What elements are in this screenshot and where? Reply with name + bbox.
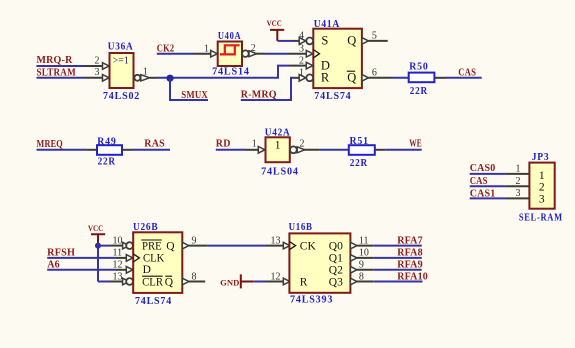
svg-text:3: 3 xyxy=(95,67,100,78)
resistor R50 xyxy=(409,73,435,83)
svg-text:74LS74: 74LS74 xyxy=(314,91,351,102)
wire pin6 to R50 xyxy=(392,77,409,79)
wire CK2 to U40A pin 1 xyxy=(157,53,194,55)
flip-flop U26B (74LS74) xyxy=(133,232,182,293)
wire R50 to CAS xyxy=(434,77,446,79)
pin 6 of U41A (Qbar) xyxy=(362,75,369,82)
svg-text:11: 11 xyxy=(113,248,123,259)
svg-text:Q0: Q0 xyxy=(329,240,343,252)
svg-text:CAS: CAS xyxy=(458,67,476,78)
svg-text:RFA9: RFA9 xyxy=(397,260,423,271)
svg-text:13: 13 xyxy=(113,271,123,282)
svg-text:1: 1 xyxy=(252,138,257,149)
pin 13 of U16B (CK) xyxy=(266,245,283,247)
svg-text:RFA10: RFA10 xyxy=(397,271,428,282)
svg-text:74LS14: 74LS14 xyxy=(212,67,250,78)
svg-text:VCC: VCC xyxy=(267,18,282,28)
wire junction down to SMUX xyxy=(170,78,208,100)
wire MREQ to R49 xyxy=(37,149,87,151)
svg-text:Q1: Q1 xyxy=(329,253,343,265)
svg-text:VCC: VCC xyxy=(88,223,103,233)
wire Q0 to RFA7 xyxy=(373,245,422,247)
svg-text:2: 2 xyxy=(251,43,256,54)
svg-text:RFSH: RFSH xyxy=(47,247,75,258)
svg-text:RFA7: RFA7 xyxy=(397,235,423,246)
svg-text:13: 13 xyxy=(271,235,281,246)
svg-text:>=1: >=1 xyxy=(113,55,129,66)
svg-text:3: 3 xyxy=(539,194,545,206)
svg-text:Q: Q xyxy=(347,71,356,85)
pin 2 of JP3 xyxy=(506,185,530,187)
svg-text:A6: A6 xyxy=(47,259,60,270)
pin 9 of U26B (Q) xyxy=(182,242,189,249)
pin 2 of U41A (D) xyxy=(290,65,306,67)
svg-text:22R: 22R xyxy=(98,156,116,167)
svg-text:3: 3 xyxy=(299,43,304,54)
svg-text:U26B: U26B xyxy=(133,222,158,233)
output pin 2 of U42A (bubble) xyxy=(290,146,297,153)
output pin 1 of U36A (bubble) xyxy=(134,75,140,81)
svg-text:RAS: RAS xyxy=(144,138,165,149)
clock mark pin 3 xyxy=(313,50,319,58)
svg-text:U16B: U16B xyxy=(289,222,313,233)
inverter U42A (74LS04) xyxy=(266,137,290,162)
svg-text:RFA8: RFA8 xyxy=(397,248,423,259)
pin 9 of U16B (Q2) xyxy=(350,267,357,274)
junction VCC xyxy=(95,243,101,249)
resistor R51 xyxy=(349,145,375,155)
svg-text:4: 4 xyxy=(299,31,304,42)
svg-text:12: 12 xyxy=(113,260,123,271)
svg-text:CLK: CLK xyxy=(143,252,165,264)
svg-text:1: 1 xyxy=(143,67,148,78)
wire CAS1 to JP3 pin 3 xyxy=(470,197,506,199)
wire GND to R pin of U16B xyxy=(253,281,266,283)
pin 3 of JP3 xyxy=(506,197,530,199)
wire CAS to JP3 pin 2 xyxy=(470,185,506,187)
wire CAS0 to JP3 pin 1 xyxy=(470,173,506,175)
svg-text:74LS04: 74LS04 xyxy=(261,166,299,177)
svg-text:6: 6 xyxy=(372,68,377,79)
pin 1 of U41A (R, bubble) xyxy=(293,77,299,79)
svg-text:2: 2 xyxy=(300,138,305,149)
pin 13 of U26B (CLR, bubble) xyxy=(110,281,123,283)
svg-text:R49: R49 xyxy=(97,136,116,147)
svg-text:CAS0: CAS0 xyxy=(470,163,496,174)
pin 8 of U26B (Qbar) xyxy=(182,278,189,285)
wire RD to U42A pin 1 xyxy=(216,149,246,151)
svg-text:SMUX: SMUX xyxy=(181,90,208,101)
wire VCC to pin 10 and pin 13 xyxy=(98,243,110,282)
wire pin 9 to CK of U16B xyxy=(207,245,266,247)
svg-text:R51: R51 xyxy=(350,136,369,147)
svg-text:1: 1 xyxy=(516,164,521,175)
connector JP3 xyxy=(529,163,554,209)
pin 3 of U36A xyxy=(85,77,103,79)
wire Q2 to RFA9 xyxy=(373,269,422,271)
wire MRQ-R to U36A pin 2 xyxy=(37,65,86,67)
pin 11 of U26B (CLK) xyxy=(116,257,126,259)
pin 11 of U16B (Q0) xyxy=(350,242,357,249)
pin 4 of U41A (S, bubble) xyxy=(293,40,299,42)
svg-text:5: 5 xyxy=(372,31,377,42)
svg-text:CK: CK xyxy=(300,240,317,252)
svg-text:U42A: U42A xyxy=(265,128,291,139)
svg-text:Q3: Q3 xyxy=(329,276,343,288)
wire U40A out to CK of U41A xyxy=(265,53,289,55)
svg-text:22R: 22R xyxy=(350,158,368,169)
svg-text:R-MRQ: R-MRQ xyxy=(241,89,277,100)
wire Q3 to RFA10 xyxy=(373,281,422,283)
pin 10 of U26B (PRE, bubble) xyxy=(110,245,123,247)
svg-text:1: 1 xyxy=(275,140,281,152)
wire SLTRAM to U36A pin 3 xyxy=(37,77,86,79)
svg-text:1: 1 xyxy=(204,43,209,54)
svg-text:S: S xyxy=(321,34,328,48)
wire U36A output to D of U41A xyxy=(157,66,290,78)
svg-text:PRE: PRE xyxy=(142,241,162,253)
svg-text:11: 11 xyxy=(359,235,369,246)
inverter U40A (74LS14 schmitt) xyxy=(218,42,242,67)
wire R51 to WE xyxy=(375,149,386,151)
wire R49 to RAS xyxy=(122,149,131,151)
pin 5 of U41A (Q) xyxy=(362,38,369,45)
svg-text:9: 9 xyxy=(192,235,197,246)
svg-text:1: 1 xyxy=(299,68,304,79)
wire A6 to pin 12 xyxy=(47,269,116,271)
svg-text:JP3: JP3 xyxy=(532,152,550,163)
pin 2 of U36A xyxy=(85,65,103,67)
svg-text:12: 12 xyxy=(271,271,281,282)
wire R-MRQ to R pin of U41A xyxy=(241,78,293,100)
wire VCC to S pin of U41A xyxy=(278,40,294,42)
pin 3 of U41A (CK) xyxy=(289,53,307,55)
svg-text:8: 8 xyxy=(192,271,197,282)
wire U42A to R51 xyxy=(320,149,349,151)
svg-text:1: 1 xyxy=(539,170,545,182)
resistor R49 xyxy=(97,145,122,155)
svg-text:CLR: CLR xyxy=(142,277,163,289)
svg-text:74LS74: 74LS74 xyxy=(135,296,172,307)
svg-text:D: D xyxy=(143,264,151,276)
flip-flop U41A (74LS74) xyxy=(313,29,362,88)
svg-text:RD: RD xyxy=(216,139,231,150)
pin 1 of U42A xyxy=(246,149,258,151)
svg-text:2: 2 xyxy=(95,55,100,66)
svg-text:2: 2 xyxy=(299,55,304,66)
svg-text:U36A: U36A xyxy=(108,42,134,53)
clock mark pin 11 xyxy=(133,254,139,262)
svg-text:2: 2 xyxy=(539,182,545,194)
svg-text:2: 2 xyxy=(516,176,521,187)
clock mark pin 13 xyxy=(289,242,295,250)
svg-text:MRQ-R: MRQ-R xyxy=(37,55,74,66)
svg-text:R: R xyxy=(321,71,330,85)
svg-text:MREQ: MREQ xyxy=(37,139,63,150)
svg-text:GND: GND xyxy=(220,277,239,287)
output pin 2 of U40A (bubble) xyxy=(242,50,249,57)
svg-text:Q: Q xyxy=(166,241,175,253)
svg-text:10: 10 xyxy=(113,235,123,246)
svg-text:Q2: Q2 xyxy=(329,264,343,276)
junction xyxy=(166,75,173,82)
pin 12 of U26B (D) xyxy=(116,269,126,271)
svg-text:74LS393: 74LS393 xyxy=(290,295,333,306)
svg-text:U40A: U40A xyxy=(218,31,241,42)
pin 1 of JP3 xyxy=(506,173,530,175)
pin 8 of U16B (Q3) xyxy=(350,278,357,285)
gate U36A (74LS02 NOR) xyxy=(110,53,134,88)
svg-text:SEL-RAM: SEL-RAM xyxy=(519,213,563,224)
pin 12 of U16B (R) xyxy=(266,281,283,283)
svg-text:Q: Q xyxy=(165,277,174,289)
svg-text:Q: Q xyxy=(347,34,356,48)
svg-text:10: 10 xyxy=(359,248,369,259)
counter U16B (74LS393) xyxy=(289,233,350,292)
svg-text:3: 3 xyxy=(516,188,521,199)
pin 1 of U40A xyxy=(194,53,211,55)
wire RFSH to pin 11 xyxy=(47,257,116,259)
wire Q1 to RFA8 xyxy=(373,257,422,259)
svg-text:8: 8 xyxy=(359,271,364,282)
svg-text:74LS02: 74LS02 xyxy=(103,91,140,102)
svg-text:22R: 22R xyxy=(410,86,428,97)
svg-text:R50: R50 xyxy=(409,62,428,73)
svg-text:U41A: U41A xyxy=(314,19,340,30)
pin 10 of U16B (Q1) xyxy=(350,255,357,262)
svg-text:R: R xyxy=(300,276,308,288)
svg-text:WE: WE xyxy=(409,138,422,149)
svg-text:9: 9 xyxy=(359,260,364,271)
